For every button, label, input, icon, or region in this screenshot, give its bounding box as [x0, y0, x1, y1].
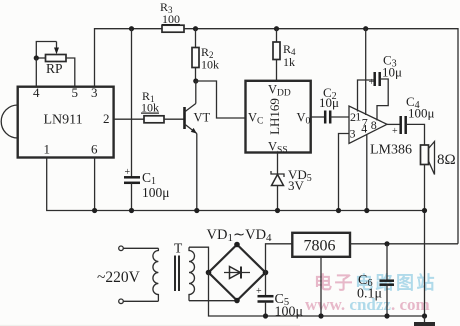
zener VD5	[271, 171, 284, 211]
node C6 top	[384, 241, 389, 246]
svg-text:+: +	[369, 77, 375, 88]
svg-text:LN911: LN911	[44, 113, 83, 128]
svg-text:1k: 1k	[283, 55, 295, 69]
svg-text:1: 1	[44, 142, 51, 157]
node gnd pin6	[92, 208, 97, 213]
svg-text:6: 6	[91, 142, 98, 157]
bottom edge artifact	[0, 325, 300, 326]
regulator 7806	[292, 233, 350, 257]
svg-text:T: T	[174, 241, 183, 256]
bridge VD1-VD4	[209, 245, 266, 301]
wire output to C4	[387, 123, 401, 125]
wire C5 bottom	[265, 302, 267, 317]
svg-text:VD1∼VD4: VD1∼VD4	[207, 227, 273, 244]
wire pin5	[66, 58, 75, 87]
svg-text:4: 4	[33, 85, 40, 100]
wire pin2 to R1	[114, 118, 144, 120]
AC terminal bottom	[119, 299, 124, 304]
svg-text:100μ: 100μ	[142, 185, 170, 200]
wire secondary top to bridge	[189, 247, 209, 272]
capacitor C4	[401, 116, 406, 134]
capacitor C3	[375, 72, 380, 86]
AC terminal top	[119, 246, 124, 251]
wire emitter down	[196, 134, 198, 211]
svg-text:3: 3	[91, 85, 98, 100]
node RP-pin4	[34, 55, 39, 60]
wire V0 to C2	[311, 116, 325, 118]
svg-text:7806: 7806	[304, 238, 336, 255]
node top-pin7	[363, 26, 368, 31]
node gnd emitter	[194, 208, 199, 213]
wire pin4	[366, 135, 368, 211]
speaker	[421, 142, 435, 175]
svg-text:~220V: ~220V	[97, 269, 141, 286]
IC U2 LH169	[246, 81, 311, 153]
svg-text:LH169: LH169	[267, 98, 282, 135]
ground rail	[47, 158, 425, 211]
op-amp U3 LM386	[349, 106, 387, 144]
transformer core	[175, 256, 179, 292]
wire pin6	[94, 158, 96, 211]
wire C1 bottom	[131, 183, 133, 211]
wire bridge left to bottom rail	[209, 273, 425, 317]
IC U1 LN911	[18, 87, 114, 158]
wire 7806 gnd	[320, 257, 322, 316]
capacitor C5	[258, 296, 274, 301]
node top-R4	[274, 26, 279, 31]
node bridge top	[234, 242, 240, 248]
wire pin4	[35, 58, 37, 87]
capacitor C2	[325, 111, 330, 124]
node gnd speaker	[422, 208, 427, 213]
svg-text:3V: 3V	[288, 178, 305, 193]
wire 7806 output	[350, 243, 458, 245]
wire collector to VC	[196, 81, 246, 118]
wire speaker down	[424, 165, 426, 317]
wire top rail left	[95, 29, 163, 87]
wire pin3	[339, 134, 349, 211]
wire C6 top	[386, 244, 388, 281]
node gnd pin3	[336, 208, 341, 213]
ground	[414, 316, 435, 326]
svg-text:10k: 10k	[141, 101, 159, 115]
svg-text:3: 3	[350, 127, 356, 141]
wire pin7 supply	[365, 29, 367, 115]
transformer T secondary	[189, 247, 195, 301]
svg-text:100μ: 100μ	[408, 106, 435, 121]
svg-text:电子: 电子	[314, 272, 355, 293]
potentiometer RP	[36, 42, 66, 62]
node bridge left	[206, 270, 212, 276]
node gnd VD5	[275, 208, 280, 213]
svg-text:VT: VT	[194, 111, 211, 125]
wire bridge right down to C5	[265, 273, 267, 297]
mic semicircle	[1, 105, 18, 138]
resistor R2	[192, 48, 199, 68]
svg-text:LM386: LM386	[370, 143, 412, 158]
node gnd C1	[129, 208, 134, 213]
wire R4 top	[276, 29, 278, 42]
svg-text:+: +	[125, 167, 131, 178]
svg-text:10k: 10k	[201, 58, 219, 72]
transformer T primary	[153, 248, 159, 301]
svg-text:5: 5	[72, 85, 79, 100]
wire VSS down	[277, 153, 279, 175]
svg-text:+: +	[392, 126, 398, 137]
bridge diode	[224, 267, 250, 279]
svg-text:100: 100	[162, 12, 180, 26]
wire R2 top	[195, 29, 197, 48]
wire C2 to pin2	[330, 116, 349, 118]
node rail main	[422, 313, 427, 318]
svg-text:0.1μ: 0.1μ	[357, 287, 382, 302]
wire R4 to VDD	[276, 60, 278, 81]
resistor R1	[144, 116, 164, 123]
svg-text:2: 2	[103, 111, 110, 126]
node bridge right	[263, 270, 269, 276]
svg-text:10μ: 10μ	[319, 95, 339, 110]
wire AC top	[123, 247, 158, 249]
svg-text:RP: RP	[46, 61, 63, 76]
svg-text:100μ: 100μ	[275, 305, 304, 320]
svg-text:8: 8	[371, 118, 377, 132]
capacitor C1	[124, 177, 140, 183]
wire R1 to VT base	[164, 118, 184, 120]
wire C6 bottom	[386, 285, 388, 316]
capacitor C6	[380, 281, 395, 285]
svg-text:8Ω: 8Ω	[437, 152, 456, 168]
node top-C1	[129, 26, 134, 31]
node top-R2	[193, 26, 198, 31]
wire AC bottom	[123, 300, 158, 302]
node gnd pin4	[364, 208, 369, 213]
svg-text:10μ: 10μ	[382, 65, 402, 80]
wire pin1 to C3	[358, 80, 375, 112]
node rail C5	[263, 313, 268, 318]
node rail C6	[384, 313, 389, 318]
watermark line1	[314, 272, 437, 293]
resistor R3	[162, 25, 184, 32]
node collector	[193, 78, 198, 83]
wire C3 to pin8	[377, 79, 388, 121]
transistor VT	[185, 81, 197, 134]
wire C4 to speaker	[406, 124, 425, 145]
wire top rail right	[184, 29, 458, 244]
wire C1 top	[131, 29, 133, 177]
node rail 7806	[318, 313, 323, 318]
resistor R4	[273, 42, 280, 60]
svg-text:4: 4	[361, 122, 367, 136]
wire bridge right up to 7806	[266, 244, 293, 273]
wire secondary bottom to bridge	[189, 300, 237, 302]
wire R2 bottom	[195, 68, 197, 82]
watermark line2	[305, 295, 430, 314]
svg-text:+: +	[256, 286, 262, 297]
node bridge bottom	[234, 298, 240, 304]
